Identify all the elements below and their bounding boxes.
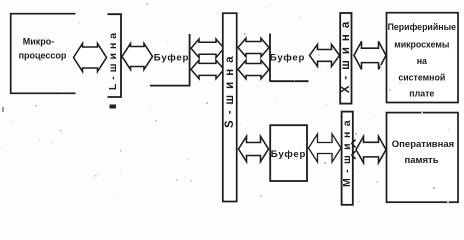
- svg-text:Периферийные: Периферийные: [388, 22, 456, 32]
- buffer3 box: [270, 125, 307, 181]
- RAM box: [387, 113, 459, 203]
- svg-text:системной: системной: [398, 73, 445, 83]
- arrow S-bus to buffer2 lower: [238, 60, 269, 79]
- arrow buffer1 to S-bus lower: [191, 60, 224, 79]
- peripheral chips box: [387, 13, 459, 103]
- svg-text:процессор: процессор: [19, 51, 67, 61]
- svg-text:плате: плате: [409, 88, 434, 98]
- microprocessor box: [11, 14, 76, 94]
- buffer2 box: [270, 34, 309, 82]
- arrow S-bus to buffer2 upper: [238, 38, 269, 57]
- svg-text:Буфер: Буфер: [154, 53, 189, 64]
- S-bus box: [223, 13, 237, 201]
- svg-text:память: память: [404, 155, 438, 166]
- svg-text:Оперативная: Оперативная: [392, 139, 454, 150]
- svg-text:L-шина: L-шина: [107, 29, 119, 90]
- svg-text:на: на: [417, 56, 427, 66]
- svg-text:M-шина: M-шина: [341, 115, 353, 187]
- X-bus box: [340, 13, 351, 104]
- svg-text:Буфер: Буфер: [271, 149, 306, 160]
- arrow S-bus to buffer3: [239, 136, 269, 161]
- L-bus box: [108, 14, 122, 97]
- arrow buffer2 to X-bus: [310, 44, 340, 66]
- buffer1 box: [150, 34, 190, 86]
- svg-text:X-шина: X-шина: [340, 16, 352, 94]
- arrow MP to L-bus: [74, 44, 107, 72]
- chevron marks at M-bus: [352, 140, 356, 160]
- arrow L-bus to buffer1: [122, 44, 153, 70]
- arrow X-bus to peripherals: [354, 41, 386, 69]
- svg-text:Микро-: Микро-: [23, 37, 55, 47]
- arrow buffer1 to S-bus upper: [191, 39, 224, 58]
- ink blob below L-bus: [110, 105, 117, 109]
- svg-text:микросхемы: микросхемы: [394, 40, 449, 50]
- svg-text:S-шина: S-шина: [224, 50, 236, 128]
- arrow buffer3 to M-bus: [309, 134, 342, 162]
- svg-text:Буфер: Буфер: [270, 53, 305, 64]
- M-bus box: [342, 112, 353, 205]
- arrow M-bus to RAM: [356, 136, 386, 162]
